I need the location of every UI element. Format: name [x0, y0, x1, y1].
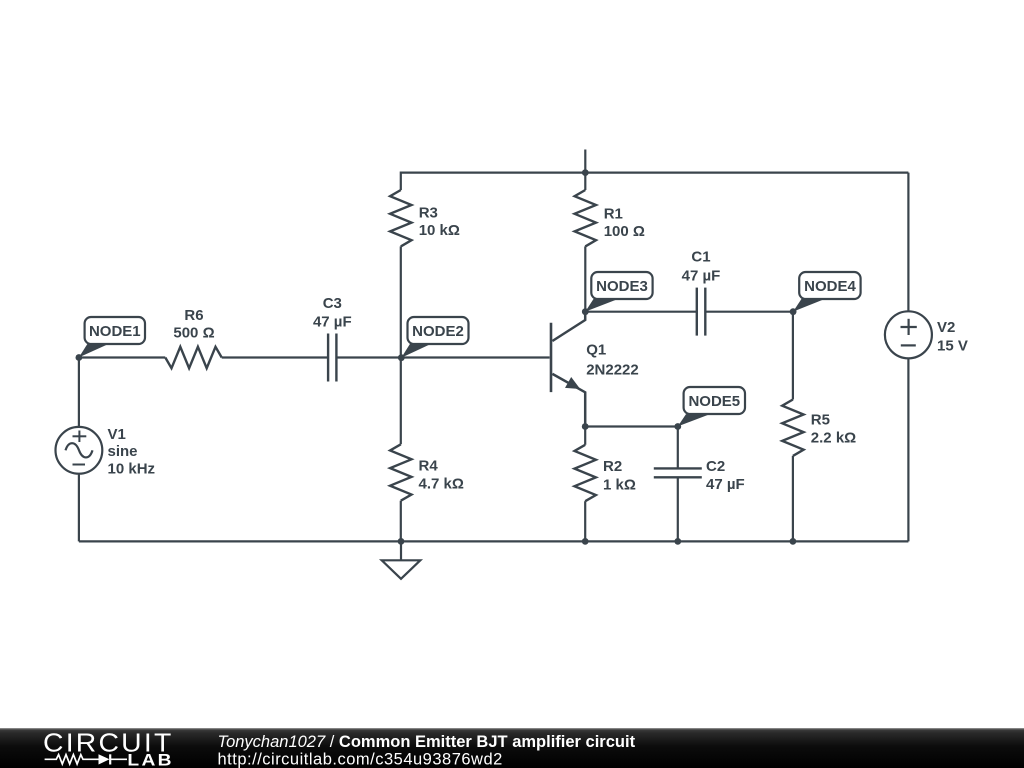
junction bottom C2 [674, 538, 681, 545]
resistor R2 [575, 427, 596, 542]
transistor Q1 [551, 312, 639, 427]
junction bottom R4 [398, 538, 405, 545]
voltage source V2 [885, 173, 968, 542]
node tag NODE1 [79, 317, 145, 357]
svg-text:4.7 kΩ: 4.7 kΩ [419, 476, 464, 493]
wire R6 to C3 [222, 356, 328, 358]
svg-text:C3: C3 [323, 295, 342, 312]
node tag NODE3 [585, 272, 652, 312]
voltage source V1 [56, 358, 156, 542]
junction top rail [582, 169, 589, 176]
node NODE4 junction [790, 308, 797, 315]
capacitor C1 [585, 288, 793, 336]
svg-text:NODE3: NODE3 [596, 278, 648, 295]
svg-text:http://circuitlab.com/c354u938: http://circuitlab.com/c354u93876wd2 [218, 750, 503, 768]
ground [382, 541, 421, 578]
svg-text:R2: R2 [603, 458, 622, 475]
svg-text:Q1: Q1 [586, 342, 606, 359]
capacitor C2 [654, 427, 702, 542]
svg-text:2.2 kΩ: 2.2 kΩ [811, 430, 856, 447]
node NODE5 junction [674, 423, 681, 430]
svg-text:10 kΩ: 10 kΩ [419, 222, 460, 239]
junction emitter row left [582, 423, 589, 430]
svg-text:NODE5: NODE5 [688, 393, 740, 410]
wire emitter row [585, 425, 678, 427]
wire top rail [401, 172, 909, 174]
resistor R1 [575, 173, 596, 312]
svg-text:Tonychan1027 / Common Emitter: Tonychan1027 / Common Emitter BJT amplif… [218, 733, 636, 751]
node NODE3 junction [582, 308, 589, 315]
node tag NODE4 [793, 272, 861, 312]
svg-text:R3: R3 [419, 205, 438, 222]
wire V+ stub [584, 150, 586, 173]
svg-text:1 kΩ: 1 kΩ [603, 477, 636, 494]
svg-text:sine: sine [108, 443, 138, 460]
svg-text:15 V: 15 V [937, 338, 968, 355]
svg-text:C1: C1 [691, 249, 710, 266]
CircuitLab logo [0, 729, 1024, 768]
svg-text:NODE1: NODE1 [89, 323, 141, 340]
svg-text:10 kHz: 10 kHz [108, 461, 156, 478]
node tag NODE5 [678, 387, 745, 426]
resistor R5 [782, 312, 803, 542]
svg-text:R4: R4 [419, 458, 439, 475]
wire NODE1 to R6 [79, 356, 165, 358]
svg-text:2N2222: 2N2222 [586, 362, 639, 379]
svg-text:47 µF: 47 µF [313, 314, 352, 331]
junction bottom R2 [582, 538, 589, 545]
resistor R4 [390, 358, 411, 542]
svg-text:47 µF: 47 µF [682, 268, 721, 285]
svg-text:NODE2: NODE2 [412, 323, 464, 340]
footer bar [0, 728, 1024, 768]
svg-text:NODE4: NODE4 [804, 278, 856, 295]
svg-text:R5: R5 [811, 412, 830, 429]
svg-text:R1: R1 [604, 206, 623, 223]
svg-text:47 µF: 47 µF [706, 476, 745, 493]
capacitor C3 [328, 334, 401, 382]
node tag NODE2 [401, 317, 468, 358]
wire bottom rail [79, 540, 909, 542]
junction bottom R5 [790, 538, 797, 545]
svg-text:500 Ω: 500 Ω [173, 325, 214, 342]
svg-text:V1: V1 [108, 426, 126, 443]
resistor R6 [165, 347, 221, 368]
svg-text:100 Ω: 100 Ω [604, 223, 645, 240]
svg-text:R6: R6 [184, 307, 203, 324]
svg-text:V2: V2 [937, 319, 955, 336]
node NODE2 junction [398, 354, 405, 361]
resistor R3 [390, 172, 411, 358]
wire base [401, 356, 549, 358]
svg-text:C2: C2 [706, 458, 725, 475]
node NODE1 junction [76, 354, 83, 361]
svg-text:LAB: LAB [127, 751, 173, 768]
